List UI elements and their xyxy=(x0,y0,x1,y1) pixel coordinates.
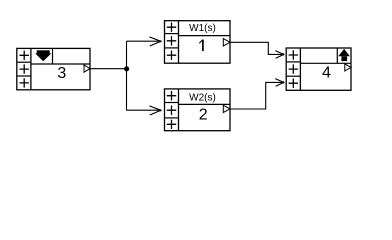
block 1 port plus sign 2 xyxy=(167,36,176,45)
block 4 port plus sign 1 xyxy=(289,50,298,59)
svg-text:3: 3 xyxy=(57,65,66,82)
block 2 outline (W2) xyxy=(165,89,231,131)
block 1 outline (W1) xyxy=(165,21,231,64)
block 2 port plus sign 3 xyxy=(167,120,176,129)
block 4 output port triangle xyxy=(345,64,351,71)
block 3 icon box xyxy=(31,48,90,64)
block 1 title separator xyxy=(179,35,231,37)
junction node dot xyxy=(124,66,129,71)
block 4 input port cell borders xyxy=(286,62,300,76)
block 4 port plus sign 3 xyxy=(289,79,298,88)
block 4 outline (sink block) xyxy=(286,48,351,90)
block 3 port plus sign 2 xyxy=(20,64,29,73)
svg-text:W2(s): W2(s) xyxy=(189,92,216,103)
svg-text:2: 2 xyxy=(199,107,208,124)
block 2 title separator xyxy=(179,103,231,105)
block 3 outline (source block) xyxy=(17,48,90,89)
wire: lower branch to block 2 input xyxy=(127,109,161,111)
svg-text:W1(s): W1(s) xyxy=(189,23,216,34)
block 2 port plus sign 2 xyxy=(167,106,176,115)
wire: block 1 output to block 4 input 1 xyxy=(231,42,284,54)
block 3 port plus sign 1 xyxy=(20,51,29,60)
block 1 input port cell borders xyxy=(165,34,179,48)
arrowhead into block 2 xyxy=(149,106,160,115)
block 3 port plus sign 3 xyxy=(20,78,29,87)
block 2 port plus sign 1 xyxy=(167,91,176,100)
wire: upper branch to block 1 input xyxy=(127,40,161,42)
block 3 input port cell borders xyxy=(17,62,31,76)
block 1 port plus sign 3 xyxy=(167,51,176,60)
block 1 output port triangle xyxy=(223,39,230,46)
block 3 output port triangle xyxy=(84,65,90,72)
arrowhead into block 1 xyxy=(149,37,160,46)
block 4 icon: solid up arrow xyxy=(338,49,350,61)
svg-text:4: 4 xyxy=(322,65,331,82)
block 3 icon: solid down arrow xyxy=(35,50,51,61)
block 1 port plus sign 1 xyxy=(167,23,176,32)
arrowhead into block 4 port 1 xyxy=(275,51,283,59)
block 4 icon box xyxy=(300,48,351,63)
block 1 number label "1" xyxy=(199,40,203,52)
wire: junction vertical branch xyxy=(126,41,128,110)
block 2 input port cell borders xyxy=(165,103,179,118)
wire: block 2 output to block 4 input 3 xyxy=(231,82,284,109)
block 4 port plus sign 2 xyxy=(289,64,298,73)
wire: block 3 output to junction xyxy=(91,68,127,70)
arrowhead into block 4 port 3 xyxy=(275,79,283,87)
block 2 output port triangle xyxy=(223,105,230,112)
